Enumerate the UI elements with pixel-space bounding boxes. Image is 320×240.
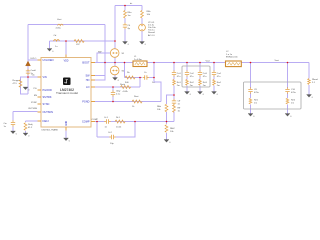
svg-text:2m: 2m xyxy=(190,85,193,87)
svg-text:BOOT: BOOT xyxy=(82,62,90,65)
svg-text:SW: SW xyxy=(85,74,90,77)
svg-text:COMP: COMP xyxy=(82,121,90,124)
resistor L1P xyxy=(74,40,84,43)
node dot 113,87 xyxy=(112,86,114,88)
wire vin pin xyxy=(28,76,38,78)
inductor L1 rect xyxy=(133,61,147,67)
wire fadj pin xyxy=(26,121,38,133)
wire sw pin row xyxy=(95,76,105,81)
svg-text:ESR=0.01m: ESR=0.01m xyxy=(226,56,238,58)
resistor Rsupp xyxy=(19,80,22,88)
svg-text:PGND: PGND xyxy=(82,101,89,104)
bank col200 res xyxy=(199,79,202,85)
wire comp loop xyxy=(97,122,135,138)
svg-text:Cvdd: Cvdd xyxy=(31,70,37,72)
svg-text:VIN: VIN xyxy=(43,76,47,79)
sense rect L2 xyxy=(226,61,242,67)
node dot 115,41 xyxy=(114,40,116,42)
wire bank col 214 xyxy=(213,63,215,92)
wire vout top y=25 xyxy=(28,24,105,26)
svg-text:PGOOD: PGOOD xyxy=(43,89,53,92)
node dot 135,121.5 xyxy=(134,121,136,123)
svg-text:COMP: COMP xyxy=(92,119,99,121)
node dot 97,121.5 xyxy=(96,121,98,123)
bank col187 res xyxy=(186,79,189,85)
wire right col 287.5 xyxy=(287,63,289,114)
node dot 140,77.5 xyxy=(139,77,141,79)
svg-text:Vout: Vout xyxy=(206,60,211,63)
node dot 105,62.5 xyxy=(104,62,106,64)
svg-text:HO: HO xyxy=(86,79,90,82)
resistor row87 xyxy=(121,86,131,89)
svg-text:10.2k: 10.2k xyxy=(116,127,122,129)
node dot 28,77 xyxy=(27,76,29,78)
switch S1 xyxy=(110,49,119,58)
node dot 154,77.5 xyxy=(153,77,155,79)
svg-text:470u: 470u xyxy=(291,92,297,94)
svg-text:Rs: Rs xyxy=(127,72,130,74)
res Resr5 xyxy=(249,98,252,104)
ground g2 xyxy=(123,42,129,47)
node dot 187,62.5 xyxy=(186,62,188,64)
wire comp row y=121.5 xyxy=(95,121,174,123)
input flag triangle xyxy=(26,61,31,66)
node dot 115,62.5 xyxy=(114,62,116,64)
svg-text:AC 0 0: AC 0 0 xyxy=(148,34,155,37)
ic U1 LM27402 box xyxy=(41,58,91,128)
wire gnd drop x=49.5 xyxy=(49,41,51,49)
svg-text:4.05u: 4.05u xyxy=(56,28,62,30)
node dot 200,62.5 xyxy=(199,62,201,64)
res Rc1 xyxy=(115,120,125,123)
wire x=140 drop xyxy=(139,78,141,88)
svg-text:Rfbt: Rfbt xyxy=(157,105,161,108)
svg-text:Vout: Vout xyxy=(275,59,280,62)
wire fb column xyxy=(166,112,168,140)
wire row y=87 xyxy=(95,86,140,88)
res Resr6 xyxy=(286,98,289,104)
node dot 174,95 xyxy=(173,94,175,96)
resistor Rs xyxy=(125,76,135,79)
ground g9 xyxy=(185,92,191,97)
wire vertical x=115 xyxy=(114,6,116,42)
wire b1 control xyxy=(97,53,111,63)
wire b1 bottom stub xyxy=(114,57,116,62)
svg-text:Rload: Rload xyxy=(312,79,318,81)
ground g15 xyxy=(307,95,313,100)
wire left vertical x=28 xyxy=(27,25,29,95)
svg-text:PG: PG xyxy=(34,88,37,90)
resistor row101 xyxy=(132,100,142,103)
ground g1 xyxy=(47,49,53,54)
wire bank col 200 xyxy=(199,63,201,92)
bank col174 res xyxy=(173,79,176,85)
wire row y=101.5 xyxy=(95,101,161,103)
svg-text:Rsupp: Rsupp xyxy=(13,80,20,82)
svg-text:LM27402_TRANS: LM27402_TRANS xyxy=(42,129,59,132)
svg-text:UVLO: UVLO xyxy=(31,58,37,60)
svg-text:Cs: Cs xyxy=(144,72,147,74)
ground g14 xyxy=(285,114,291,119)
capacitor Cs xyxy=(143,75,149,79)
wire right col 250.5 xyxy=(250,63,252,114)
ground g7 xyxy=(23,133,29,138)
svg-text:Cff: Cff xyxy=(178,101,181,103)
svg-text:OUTSNS: OUTSNS xyxy=(28,108,37,110)
ground g11 xyxy=(212,92,218,97)
ground g10 xyxy=(198,92,204,97)
svg-text:1m: 1m xyxy=(291,102,294,104)
cap Cc2 xyxy=(109,135,115,139)
capacitor Cin xyxy=(11,120,15,126)
ground g5 xyxy=(23,87,29,92)
mid box around bank xyxy=(182,66,210,87)
wire x=154 link xyxy=(154,63,161,102)
wire chain x=125 xyxy=(124,6,126,42)
svg-text:OUTSNS: OUTSNS xyxy=(43,111,54,114)
wire vdd drop x=66 xyxy=(65,41,67,58)
svg-text:1m: 1m xyxy=(254,102,257,104)
svg-text:L1P: L1P xyxy=(76,44,80,46)
bank col174 cap xyxy=(172,70,176,76)
node dot 66,41 xyxy=(65,40,67,42)
svg-text:Rset: Rset xyxy=(134,95,139,98)
node dot 166.5,121.5 xyxy=(166,121,168,123)
ground g13 xyxy=(248,114,254,119)
svg-text:Rser=0: Rser=0 xyxy=(148,32,156,34)
res Rfb2 xyxy=(165,125,168,133)
wire snub drop x=124.5 xyxy=(124,63,126,78)
wire uvlo pin xyxy=(28,59,38,61)
svg-text:2m: 2m xyxy=(177,85,180,87)
capacitor Cvdd x28 xyxy=(26,69,30,75)
svg-text:VDD: VDD xyxy=(64,60,69,62)
bank col214 cap xyxy=(212,70,216,76)
wire fb link y=95 xyxy=(167,95,175,104)
node dot 125,5.5 xyxy=(124,5,126,7)
res Rfbt xyxy=(165,104,168,112)
svg-text:LO: LO xyxy=(86,86,89,89)
bank col214 res xyxy=(213,79,216,85)
svg-text:UVLO/EN: UVLO/EN xyxy=(43,59,54,62)
svg-text:FADJ: FADJ xyxy=(43,120,50,123)
cap Cc1 xyxy=(104,119,110,123)
node dot 250.5,62.5 xyxy=(250,62,252,64)
switch S2 xyxy=(110,66,119,75)
svg-text:Rsnb: Rsnb xyxy=(120,84,126,86)
wire b2 stubs xyxy=(114,63,116,78)
ground g4 xyxy=(113,78,119,83)
res Rff col174 xyxy=(173,105,176,113)
cap C9 xyxy=(248,87,252,93)
resistor Radj xyxy=(24,123,27,131)
node dot 154,62.5 xyxy=(153,62,155,64)
wire rload branch xyxy=(308,63,310,95)
svg-text:4.02k: 4.02k xyxy=(123,91,129,93)
node dot 174,62.5 xyxy=(173,62,175,64)
wire row y=41 xyxy=(50,40,116,42)
svg-text:2m: 2m xyxy=(217,85,220,87)
wire outsns pin xyxy=(13,112,38,132)
wire bank col 187 xyxy=(186,63,188,92)
wire rsupp loop xyxy=(21,77,29,94)
ic pin labels left xyxy=(43,59,54,123)
node dot 287.5,62.5 xyxy=(287,62,289,64)
svg-text:1m: 1m xyxy=(128,15,131,17)
svg-text:Radj: Radj xyxy=(28,124,33,126)
ground g8 xyxy=(64,138,70,143)
inductor Lout top xyxy=(58,24,64,25)
capacitor Cd xyxy=(54,40,60,41)
wire x=113 cap branch xyxy=(112,87,114,102)
ground g3 xyxy=(140,42,146,47)
wire gnd pin drop xyxy=(65,131,67,139)
bank col200 cap xyxy=(198,70,202,76)
svg-text:SYNC: SYNC xyxy=(31,102,37,104)
capacitor Cbly xyxy=(111,90,115,96)
svg-text:Vout: Vout xyxy=(57,18,62,21)
resistor R6a xyxy=(124,10,127,18)
bank col187 cap xyxy=(185,70,189,76)
svg-text:EN: EN xyxy=(34,95,37,97)
ground g12 xyxy=(164,140,170,145)
node dot 113,101.5 xyxy=(112,101,114,103)
wire chain x=142 xyxy=(141,6,143,42)
svg-text:Transient model: Transient model xyxy=(56,91,78,95)
ti logo xyxy=(63,78,71,86)
ic pin stubs xyxy=(38,55,96,131)
right load box xyxy=(244,82,302,109)
cap C10 xyxy=(285,87,289,93)
wire bank col 174 xyxy=(173,63,175,96)
wire b1 top stub xyxy=(114,41,116,49)
resistor R6b xyxy=(141,10,144,18)
svg-text:470u: 470u xyxy=(254,92,260,94)
ground g6 xyxy=(11,131,17,136)
cap Cff col174 xyxy=(172,99,176,105)
res Rload xyxy=(308,79,311,85)
capacitor C4 xyxy=(123,23,127,29)
svg-text:Rff: Rff xyxy=(178,108,181,110)
wire vertical x=105 xyxy=(104,25,106,76)
svg-text:2m: 2m xyxy=(203,85,206,87)
wire snub row y=77.5 xyxy=(125,77,155,79)
node dot 214,62.5 xyxy=(213,62,215,64)
svg-text:GND: GND xyxy=(66,121,68,126)
svg-text:SS/TRK: SS/TRK xyxy=(43,96,52,99)
ic pin labels right xyxy=(82,62,90,124)
wire main rail y=62.5 xyxy=(95,62,309,64)
vsource V2 xyxy=(139,24,146,31)
svg-text:1u 0.9m: 1u 0.9m xyxy=(134,59,142,61)
svg-text:SYNC: SYNC xyxy=(43,103,50,106)
wire col174 lower xyxy=(173,95,175,122)
wire top link y=5.5 xyxy=(115,5,142,7)
node dot 124.5,62.5 xyxy=(124,62,126,64)
